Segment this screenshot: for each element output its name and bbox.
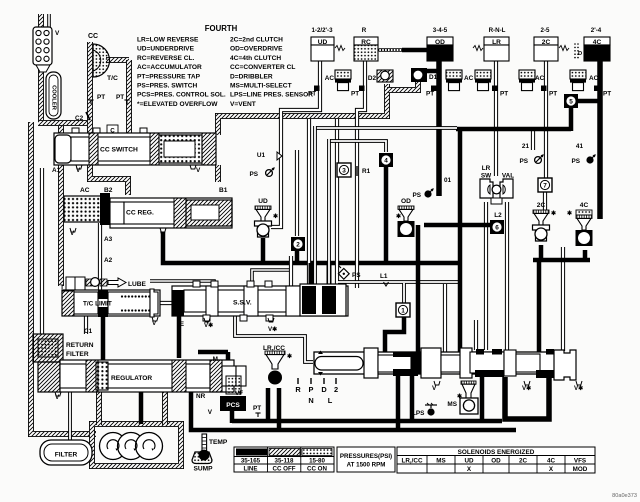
pressures psi box — [337, 447, 395, 472]
check ball 6 — [490, 220, 504, 234]
svg-text:35-118: 35-118 — [275, 458, 294, 465]
svg-text:R: R — [362, 27, 367, 34]
svg-text:PS: PS — [519, 158, 528, 165]
svg-text:2: 2 — [296, 241, 300, 248]
svg-text:P: P — [309, 385, 314, 394]
wire converter-out vertical — [126, 60, 132, 135]
pump assembly — [100, 433, 127, 460]
wire cc switch to cc reg — [90, 165, 128, 195]
tap PT OD — [431, 86, 437, 92]
solenoids table columns — [427, 456, 565, 474]
wire bottom rail A — [232, 419, 502, 424]
wire dribbler D2 line — [378, 48, 403, 52]
spring LR — [473, 46, 483, 51]
svg-text:2C: 2C — [537, 202, 546, 209]
svg-text:4C=4th CLUTCH: 4C=4th CLUTCH — [230, 55, 281, 62]
svg-text:C1: C1 — [84, 328, 93, 335]
accumulator AC 4C — [570, 70, 586, 91]
check ball 1 — [396, 303, 410, 317]
svg-text:V: V — [196, 167, 201, 174]
svg-text:35-165: 35-165 — [241, 458, 261, 465]
svg-text:41: 41 — [576, 143, 584, 150]
wire L2 line right — [505, 202, 509, 350]
svg-text:2: 2 — [334, 385, 338, 394]
wire lube line — [150, 281, 214, 287]
svg-text:AC: AC — [589, 75, 599, 82]
wire line A mid drop — [458, 127, 463, 353]
svg-text:CC SWITCH: CC SWITCH — [100, 147, 138, 154]
svg-text:B1: B1 — [219, 187, 228, 194]
wire A1 line — [40, 168, 44, 334]
svg-text:CC=CONVERTER CL: CC=CONVERTER CL — [230, 64, 295, 71]
svg-text:SOLENOIDS ENERGIZED: SOLENOIDS ENERGIZED — [458, 449, 535, 456]
svg-text:A3: A3 — [104, 236, 113, 243]
cooler — [46, 72, 61, 119]
svg-text:MS=MULTI-SELECT: MS=MULTI-SELECT — [230, 83, 292, 90]
return filter — [33, 334, 63, 362]
funnel below bypass — [36, 65, 50, 72]
valve SSV body — [172, 286, 348, 316]
valve VF dotted sleeve — [226, 376, 241, 394]
svg-text:6: 6 — [495, 224, 499, 231]
vent ssv1 — [204, 318, 210, 322]
wire ssv top feed 3 — [289, 256, 293, 288]
wire loop below manual valve — [505, 377, 549, 419]
wire cc reg output rail — [163, 232, 460, 263]
wire ball1 gray feed — [402, 283, 406, 303]
solenoid UD — [255, 206, 272, 237]
wire ball1 to manual valve — [385, 316, 404, 353]
svg-text:2C=2nd CLUTCH: 2C=2nd CLUTCH — [230, 37, 283, 44]
svg-text:PRESSURES(PSI): PRESSURES(PSI) — [340, 453, 392, 460]
clutch 2C — [534, 37, 558, 45]
temp gauge — [202, 434, 207, 451]
vent ccreg — [70, 228, 76, 232]
svg-text:A2: A2 — [104, 257, 113, 264]
wire cooler-return left outer loop — [31, 122, 96, 434]
svg-text:PS: PS — [412, 192, 421, 199]
svg-text:3: 3 — [342, 167, 346, 174]
svg-text:PT: PT — [308, 91, 316, 98]
svg-text:V=VENT: V=VENT — [230, 101, 256, 108]
svg-text:21: 21 — [522, 143, 530, 150]
svg-text:4C: 4C — [580, 202, 589, 209]
pressure switch PS 21 — [535, 155, 544, 164]
node C — [107, 125, 118, 134]
solenoid OD — [398, 206, 415, 237]
svg-text:T/C LIMIT: T/C LIMIT — [83, 301, 112, 308]
svg-text:4C: 4C — [547, 458, 556, 465]
svg-text:OD=OVERDRIVE: OD=OVERDRIVE — [230, 46, 283, 53]
svg-text:D=DRIBBLER: D=DRIBBLER — [230, 73, 273, 80]
sensor LPS — [427, 408, 434, 415]
valve SSV black spools — [300, 284, 346, 316]
svg-text:2C: 2C — [519, 458, 528, 465]
svg-text:SUMP: SUMP — [193, 466, 213, 473]
tap PT tc1 — [88, 100, 93, 104]
svg-text:T/C: T/C — [107, 75, 118, 82]
svg-text:E: E — [180, 321, 185, 328]
svg-text:R: R — [295, 385, 301, 394]
wire manual valve drain 2 — [410, 374, 415, 421]
wire regulator pump drop — [139, 392, 144, 424]
pressure switch PS 41 — [586, 155, 595, 164]
svg-text:L2: L2 — [494, 212, 502, 219]
wire line A gray drop — [313, 126, 317, 290]
svg-text:LR,/CC: LR,/CC — [402, 458, 423, 465]
wire top stub right — [47, 14, 51, 27]
svg-text:CC: CC — [88, 33, 98, 40]
wire lrcc sol down — [266, 388, 271, 421]
wire 2C clutch line — [544, 61, 548, 178]
svg-text:PT=PRESSURE TAP: PT=PRESSURE TAP — [137, 73, 201, 80]
wire line A gray left — [315, 126, 457, 130]
dribbler D notch 4C — [574, 43, 579, 58]
svg-text:MOD: MOD — [573, 466, 588, 473]
valve CC SWITCH top tabs — [72, 128, 147, 134]
wire E drop — [177, 316, 182, 358]
check ball 3 — [337, 163, 351, 177]
svg-text:AC=ACCUMULATOR: AC=ACCUMULATOR — [137, 64, 202, 71]
svg-text:✱: ✱ — [287, 353, 292, 360]
filter — [40, 440, 92, 465]
wire OD sol to ball6 — [424, 223, 490, 228]
wire dribbler D1 branch — [387, 80, 418, 90]
wire 4C sol side — [561, 247, 565, 351]
wire OD sol left drop — [416, 225, 421, 353]
dribbler D2 — [377, 70, 393, 82]
svg-text:RETURN: RETURN — [66, 342, 94, 349]
valve boost section — [236, 366, 246, 386]
wire ball5 to 4C — [578, 99, 600, 104]
svg-text:UD: UD — [258, 198, 268, 205]
pressure legend table — [234, 447, 334, 472]
clutch UD — [311, 37, 334, 45]
wire ssv spool feed left — [309, 263, 314, 290]
svg-text:MS: MS — [447, 401, 457, 408]
solenoids energized table — [397, 447, 595, 473]
svg-text:1-2/2'-3: 1-2/2'-3 — [311, 27, 333, 34]
vent ccreg2 — [160, 228, 166, 232]
valve T/C LIMIT body — [62, 290, 160, 316]
wire regulator feed down — [191, 392, 516, 430]
pressure switch PS L1 diamond — [338, 266, 349, 280]
wire UD sol drop — [261, 238, 266, 262]
svg-text:COOLER: COOLER — [51, 85, 57, 111]
svg-text:2'-4: 2'-4 — [591, 27, 602, 34]
svg-text:V: V — [432, 385, 437, 392]
wire ssv top feed 1 — [307, 119, 311, 288]
svg-text:PT: PT — [97, 94, 105, 101]
wire ms drain — [480, 377, 485, 421]
wire D1 feed — [426, 69, 440, 74]
wire pump outlet left — [96, 392, 102, 425]
svg-text:✱: ✱ — [567, 210, 572, 217]
accumulator AC UD — [335, 70, 351, 91]
svg-text:5: 5 — [569, 98, 573, 105]
wire ssv spool feed right — [327, 263, 332, 290]
svg-text:V: V — [55, 30, 60, 37]
svg-text:2-5: 2-5 — [541, 27, 551, 34]
lube valve — [86, 279, 92, 286]
wire ball2 drop — [295, 248, 300, 264]
wire sol rail drop — [537, 258, 542, 353]
valve manual right end — [554, 350, 576, 380]
svg-text:PS: PS — [352, 272, 361, 279]
svg-text:CC OFF: CC OFF — [272, 466, 295, 473]
wire RC line — [357, 61, 365, 288]
valve SSV port tabs — [193, 281, 273, 321]
solenoid PCS — [220, 396, 246, 411]
svg-text:✱: ✱ — [551, 210, 556, 217]
vent tclimit — [152, 317, 158, 321]
wire line A thick right — [456, 127, 571, 132]
cooler bypass valve — [33, 27, 52, 65]
clutch OD — [427, 37, 453, 45]
svg-text:V✱: V✱ — [204, 322, 213, 329]
svg-text:PT: PT — [549, 91, 557, 98]
wire lube feed vertical — [58, 124, 64, 286]
svg-text:S.S.V.: S.S.V. — [233, 300, 252, 307]
svg-text:VFS: VFS — [574, 458, 586, 465]
svg-text:AC: AC — [80, 187, 90, 194]
tap PT 4C — [594, 86, 600, 92]
svg-text:V✱: V✱ — [522, 385, 531, 392]
vent manual2 — [576, 381, 582, 385]
wire cc reg B1 feed — [215, 165, 221, 182]
wire sol bottom rail — [533, 258, 590, 263]
svg-text:R1: R1 — [362, 168, 371, 175]
valve REGULATOR body — [38, 362, 60, 392]
svg-text:V✱: V✱ — [574, 385, 583, 392]
svg-text:AC: AC — [464, 75, 474, 82]
node R1 tick — [356, 166, 358, 176]
solenoid MS — [461, 381, 476, 384]
valve manual black pads — [393, 352, 412, 357]
wire lrcc sol down2 — [277, 388, 282, 430]
wire manual valve port b — [474, 320, 478, 350]
wire 2C sol feed — [543, 192, 547, 210]
svg-text:VF: VF — [235, 390, 243, 397]
vent ssv2 — [268, 318, 274, 322]
svg-text:N: N — [308, 396, 313, 405]
svg-text:NR: NR — [196, 393, 206, 400]
vent ccsw right — [190, 165, 196, 169]
svg-text:PT: PT — [500, 91, 508, 98]
wire L2 line left — [484, 202, 488, 350]
tap PT tc2 — [124, 100, 129, 104]
node C2 — [86, 112, 90, 120]
wire UD clutch line — [271, 61, 320, 227]
svg-text:PS: PS — [249, 171, 258, 178]
valve manual body — [314, 352, 556, 374]
svg-text:4: 4 — [384, 157, 388, 164]
vent regulator — [55, 392, 61, 396]
svg-text:UD=UNDERDRIVE: UD=UNDERDRIVE — [137, 46, 195, 53]
svg-text:15-80: 15-80 — [309, 458, 325, 465]
svg-text:L: L — [328, 396, 333, 405]
wire manual valve port a — [443, 284, 447, 352]
svg-text:PS: PS — [571, 158, 580, 165]
wire converter-in vertical — [87, 42, 93, 135]
wire OD clutch main — [436, 61, 442, 196]
svg-text:MS: MS — [436, 458, 445, 465]
wire 4C clutch main — [597, 61, 603, 219]
svg-text:AC: AC — [325, 75, 335, 82]
svg-text:OD: OD — [401, 198, 411, 205]
wire line B gray drop — [327, 139, 331, 290]
tap PT LR — [492, 86, 498, 92]
tap PT UD — [314, 86, 320, 92]
wire D2 branch — [335, 119, 339, 288]
svg-text:PT: PT — [253, 405, 261, 412]
valve LR switch — [480, 179, 493, 198]
svg-text:D: D — [321, 385, 327, 394]
svg-text:C2: C2 — [75, 115, 84, 122]
svg-text:D: D — [578, 51, 582, 57]
accumulator AC LR — [475, 70, 491, 91]
svg-text:1: 1 — [401, 307, 405, 314]
valve CC SWITCH body — [54, 133, 216, 165]
svg-text:U1: U1 — [257, 152, 266, 159]
svg-text:V✱: V✱ — [268, 326, 277, 333]
accumulator AC 2C — [519, 70, 535, 91]
check ball 2 — [291, 237, 305, 251]
wire cc apply top horizontal — [218, 84, 387, 135]
wire M line — [226, 352, 231, 362]
svg-text:PT: PT — [351, 91, 359, 98]
svg-text:PCS: PCS — [226, 402, 240, 409]
svg-text:*=ELEVATED OVERFLOW: *=ELEVATED OVERFLOW — [137, 101, 218, 108]
accumulator AC OD — [446, 70, 462, 91]
wire L1 feed — [384, 156, 389, 262]
wire L1 gray line — [338, 280, 458, 284]
svg-text:LR: LR — [482, 165, 491, 172]
wire ssv elbow — [252, 270, 291, 287]
solenoid 4C body — [576, 215, 593, 246]
svg-text:AT 1500 RPM: AT 1500 RPM — [347, 462, 386, 469]
wire line B gray — [329, 141, 386, 152]
wire LR clutch line — [494, 61, 498, 176]
svg-text:LINE: LINE — [243, 466, 257, 473]
check ball 7 — [538, 178, 552, 192]
svg-text:R-N-L: R-N-L — [489, 27, 506, 34]
clutch RC — [354, 37, 378, 45]
svg-text:FILTER: FILTER — [66, 351, 89, 358]
wire ball2 feed — [295, 150, 299, 236]
wire line A right to ball5 — [569, 106, 574, 131]
svg-text:B2: B2 — [104, 187, 113, 194]
solenoid 2C — [533, 210, 550, 241]
wire converter-out link — [106, 57, 129, 63]
svg-text:REGULATOR: REGULATOR — [111, 375, 152, 382]
wire pump suction loop — [92, 424, 181, 466]
svg-text:UD: UD — [464, 458, 474, 465]
valve CC REG accumulator — [64, 196, 108, 222]
svg-text:TEMP: TEMP — [209, 439, 228, 446]
svg-text:D1: D1 — [429, 74, 438, 81]
svg-text:LPS=LINE PRES. SENSOR: LPS=LINE PRES. SENSOR — [230, 92, 313, 99]
svg-text:CC ON: CC ON — [307, 466, 327, 473]
vent manual1 — [524, 381, 530, 385]
svg-text:✱: ✱ — [396, 213, 401, 220]
svg-text:7: 7 — [543, 182, 547, 189]
svg-text:PS=PRES. SWITCH: PS=PRES. SWITCH — [137, 83, 198, 90]
pressure switch PS U1 — [266, 168, 275, 177]
svg-text:PCS=PRES. CONTROL SOL.: PCS=PRES. CONTROL SOL. — [137, 92, 226, 99]
svg-text:80a0e373: 80a0e373 — [612, 493, 637, 499]
spring 2C — [559, 46, 569, 51]
check valve U1 — [277, 152, 282, 160]
wire ssv bottom to manual valve — [235, 316, 313, 362]
valve manual lands — [364, 348, 378, 378]
svg-text:RC=REVERSE CL.: RC=REVERSE CL. — [137, 55, 195, 62]
check ball 5 — [564, 94, 578, 108]
node T box — [66, 277, 75, 290]
valve CC REG body — [110, 198, 232, 228]
wire manual valve drain 1 — [396, 374, 401, 430]
wire C1 stub — [84, 316, 88, 334]
vent manual — [434, 381, 440, 385]
wire regulator M feed — [198, 350, 228, 355]
svg-text:D2: D2 — [368, 75, 377, 82]
svg-text:PT: PT — [116, 94, 124, 101]
svg-text:OD: OD — [491, 458, 501, 465]
valve manual stem — [315, 357, 363, 371]
svg-text:L1: L1 — [380, 273, 388, 280]
wire pump outlet right — [162, 392, 168, 425]
svg-text:3-4-5: 3-4-5 — [433, 27, 448, 34]
svg-text:LR=LOW REVERSE: LR=LOW REVERSE — [137, 37, 199, 44]
solenoid 4C cap — [576, 210, 592, 215]
label manual positions ticks — [297, 378, 299, 384]
sump — [192, 452, 212, 464]
svg-text:LPS: LPS — [412, 410, 425, 417]
spring UD — [335, 46, 345, 51]
check ball 4 — [379, 153, 393, 167]
wire 21 PS branch — [531, 129, 535, 150]
torque converter T/C dome — [93, 44, 110, 77]
wire pcs down — [230, 409, 235, 423]
wire top stub — [38, 14, 44, 30]
solenoid LR/CC — [265, 351, 285, 355]
svg-text:CC REG.: CC REG. — [126, 210, 154, 217]
pressure switch PS OD — [424, 189, 433, 198]
wire filter to regulator — [68, 392, 72, 440]
wire tclimit to ssv — [156, 301, 174, 305]
vent ccsw — [76, 165, 82, 169]
tap PT pcs — [255, 413, 260, 417]
wire tc limit drop — [101, 317, 106, 360]
svg-text:01: 01 — [444, 177, 452, 184]
wire from bypass valve down — [38, 66, 44, 123]
svg-text:V: V — [208, 409, 213, 416]
svg-text:FILTER: FILTER — [55, 452, 78, 459]
svg-text:AC: AC — [535, 75, 545, 82]
dribbler D1 — [411, 68, 427, 82]
clutch LR — [484, 37, 509, 45]
wire 2C sol stub — [539, 245, 544, 260]
tap PT RC — [359, 86, 365, 92]
svg-text:LUBE: LUBE — [128, 281, 147, 288]
svg-text:A1: A1 — [52, 167, 61, 174]
svg-text:FOURTH: FOURTH — [205, 24, 238, 33]
svg-text:PT: PT — [603, 91, 611, 98]
node L1 tick — [384, 282, 389, 286]
tap PT 2C — [541, 86, 547, 92]
wire 4C sol stub — [583, 250, 588, 260]
clutch 4C — [584, 37, 610, 45]
